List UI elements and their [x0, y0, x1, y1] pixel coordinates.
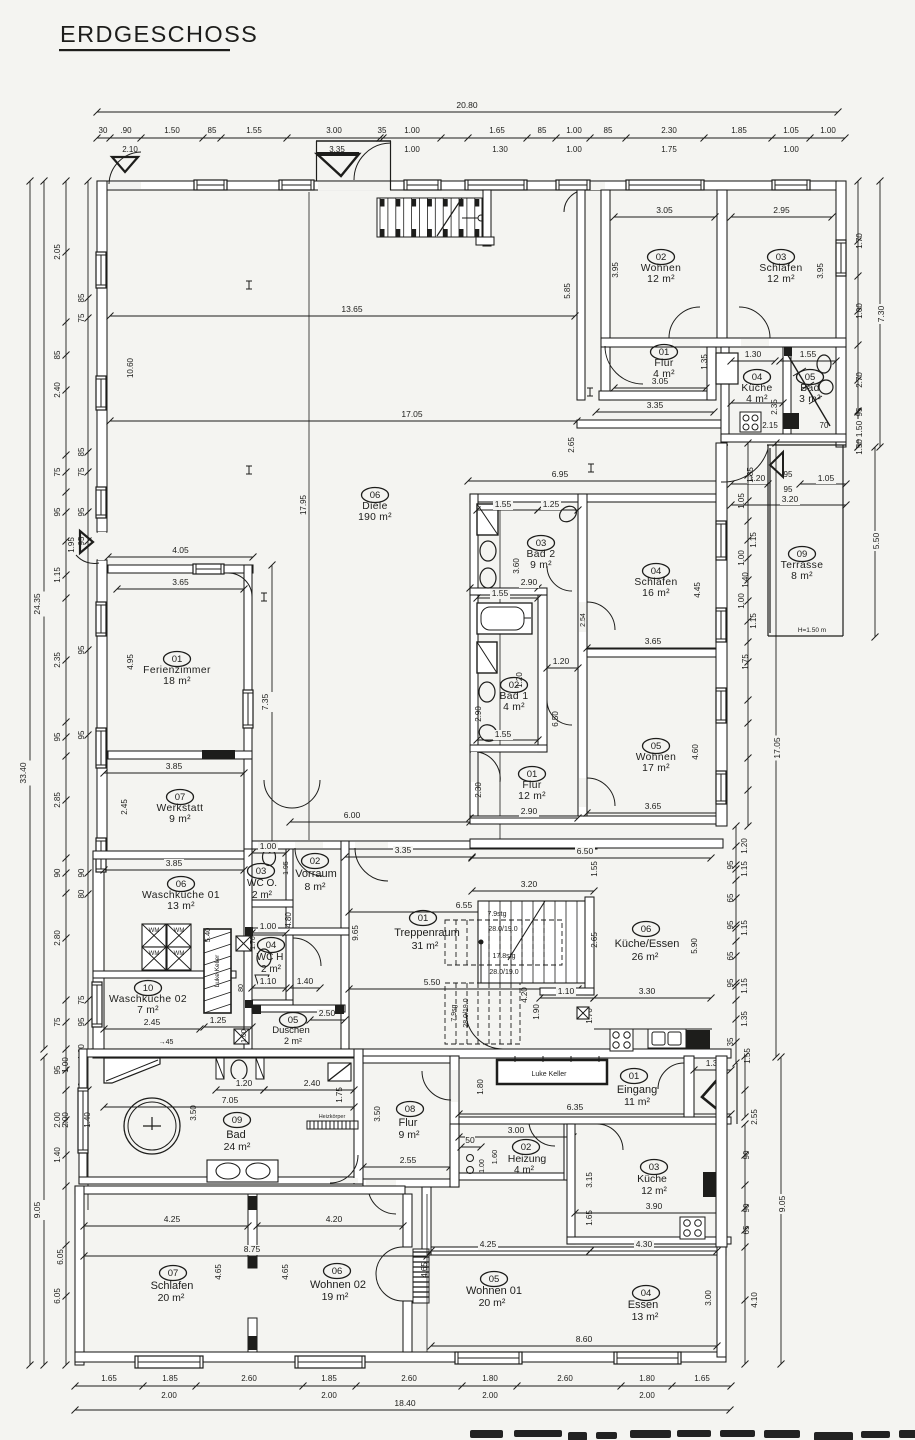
svg-text:Wohnen 02: Wohnen 02 — [310, 1279, 366, 1291]
svg-text:1.00: 1.00 — [737, 593, 746, 609]
dim 18.40 — [75, 1409, 730, 1411]
svg-text:75: 75 — [53, 1017, 62, 1026]
svg-text:3.95: 3.95 — [611, 262, 620, 278]
svg-text:18 m²: 18 m² — [163, 676, 191, 687]
top block left wall — [601, 190, 610, 400]
svg-text:2.55: 2.55 — [400, 1155, 417, 1165]
svg-text:65: 65 — [726, 951, 735, 960]
svg-text:9 m²: 9 m² — [530, 560, 552, 571]
svg-text:2.30: 2.30 — [474, 782, 483, 798]
svg-text:95: 95 — [53, 732, 62, 741]
dim 1.05 terrasse — [800, 483, 846, 485]
svg-text:80: 80 — [238, 984, 245, 992]
svg-text:3.35: 3.35 — [647, 400, 664, 410]
svg-text:1.80: 1.80 — [482, 1374, 498, 1383]
svg-text:95: 95 — [77, 730, 86, 739]
stair hall rail — [462, 217, 478, 219]
svg-text:2.54: 2.54 — [580, 613, 587, 627]
wall between Waschkueche — [93, 971, 236, 978]
Wohnen02 right wall upper — [403, 1194, 412, 1247]
svg-text:17.05: 17.05 — [772, 737, 782, 759]
svg-text:9 m²: 9 m² — [399, 1129, 421, 1141]
room 09 Bad24 — [224, 1113, 251, 1128]
dim 4.25 Wohnen01 — [431, 1250, 590, 1252]
porch top line — [316, 140, 391, 142]
svg-text:7.05: 7.05 — [222, 1095, 239, 1105]
room 01 Flur12 — [519, 767, 546, 782]
dim 3.35 below Flur — [596, 411, 714, 413]
dim 1.50 right — [857, 411, 859, 447]
dim 7.30 top block — [879, 181, 881, 447]
svg-text:75: 75 — [77, 467, 86, 476]
Bad2 sink 1 — [480, 541, 496, 561]
door arrow Terrasse — [770, 452, 783, 477]
door arc Bad1 — [547, 700, 572, 725]
svg-text:4.25: 4.25 — [164, 1214, 181, 1224]
svg-text:1.65: 1.65 — [694, 1374, 710, 1383]
washing machine 3 — [142, 947, 166, 970]
outer wall right lower — [716, 1056, 727, 1247]
room 05 Duschen — [280, 1013, 307, 1028]
svg-text:Eingang: Eingang — [617, 1084, 657, 1096]
dim 6.35 — [459, 1113, 731, 1115]
door gap Treppenraum — [355, 842, 388, 848]
svg-text:Waschküche 01: Waschküche 01 — [142, 890, 220, 901]
dim 3.85 Werkstatt — [104, 772, 244, 774]
svg-text:Bad: Bad — [226, 1129, 246, 1141]
central divider wall — [578, 494, 587, 816]
svg-text:5.40: 5.40 — [203, 928, 212, 943]
svg-text:2.60: 2.60 — [401, 1374, 417, 1383]
svg-text:24.35: 24.35 — [32, 593, 42, 615]
top block wall below rooms — [601, 338, 846, 347]
stair hall diagonal — [437, 198, 462, 236]
svg-text:9.05: 9.05 — [777, 1195, 787, 1212]
Bad24 post 1 — [216, 1058, 224, 1079]
dim 17.05 right — [775, 443, 777, 1057]
door gap left wall mid — [98, 532, 106, 560]
svg-text:6.95: 6.95 — [552, 469, 569, 479]
wall below stair — [476, 237, 494, 245]
door arc Heizung — [529, 1124, 555, 1146]
black post Bad05 — [784, 347, 792, 356]
svg-text:3.65: 3.65 — [172, 577, 189, 587]
Bad24 shower diag — [106, 1060, 158, 1081]
svg-text:Diele: Diele — [362, 501, 387, 512]
black post mid 1 — [245, 927, 253, 936]
svg-text:17.8stg: 17.8stg — [493, 953, 516, 960]
top dim chain — [97, 137, 845, 139]
svg-text:4.10: 4.10 — [750, 1292, 759, 1308]
Treppenraum lower wall — [540, 988, 594, 995]
bottom right wall — [717, 1247, 726, 1357]
wall right of stair — [483, 190, 491, 246]
svg-text:190 m²: 190 m² — [358, 512, 392, 523]
door gap Wohnen12 — [672, 339, 700, 346]
window right mid 4 — [716, 771, 726, 804]
svg-text:2.85: 2.85 — [53, 792, 62, 808]
svg-text:95: 95 — [784, 470, 793, 479]
outer wall top — [97, 181, 838, 190]
svg-text:4.65: 4.65 — [281, 1264, 290, 1280]
window right mid 2 — [716, 608, 726, 642]
counter black Kueche04 — [783, 413, 799, 429]
svg-text:1.20: 1.20 — [236, 1078, 253, 1088]
svg-text:3.60: 3.60 — [512, 558, 521, 574]
dim 1.20 corridor — [547, 667, 578, 669]
svg-text:2.90: 2.90 — [474, 706, 483, 722]
scan artifact strip bottom — [470, 1430, 915, 1440]
outer wall left lower block — [93, 852, 104, 1057]
bottom band top wall left — [75, 1186, 405, 1194]
svg-text:9.65: 9.65 — [351, 925, 360, 941]
svg-text:1.00: 1.00 — [479, 1159, 486, 1173]
dim 2.90 Bad2 — [470, 587, 538, 589]
svg-text:4 m²: 4 m² — [503, 702, 525, 713]
svg-text:1.00: 1.00 — [404, 145, 420, 154]
stair dashed flight upper — [445, 920, 562, 965]
svg-text:2.45: 2.45 — [120, 799, 129, 815]
svg-text:95: 95 — [77, 507, 86, 516]
door arc Treppenraum — [355, 848, 388, 881]
svg-text:6.35: 6.35 — [567, 1102, 584, 1112]
svg-text:2.15: 2.15 — [762, 421, 778, 430]
svg-text:1.05: 1.05 — [818, 473, 835, 483]
svg-text:6.55: 6.55 — [456, 900, 473, 910]
dim 1.00 WC O — [252, 852, 286, 854]
svg-text:9.05: 9.05 — [32, 1201, 42, 1218]
Bad24 top wall — [79, 1049, 363, 1057]
svg-text:1.05: 1.05 — [737, 493, 746, 509]
svg-text:4.65: 4.65 — [420, 1262, 429, 1278]
window left 4 — [96, 838, 106, 872]
porch door arc — [354, 143, 391, 180]
central block top wall — [470, 494, 723, 502]
mid band bottom wall — [93, 1049, 731, 1058]
section mark 2 — [246, 466, 252, 474]
svg-text:4.05: 4.05 — [172, 545, 189, 555]
Flur08 top wall — [363, 1056, 459, 1063]
svg-text:WC O.: WC O. — [247, 878, 277, 889]
svg-text:1.85: 1.85 — [731, 126, 747, 135]
svg-text:02: 02 — [521, 1142, 532, 1153]
svg-text:2 m²: 2 m² — [284, 1036, 302, 1046]
svg-text:Schlafen: Schlafen — [634, 577, 677, 588]
Bad24 bottom wall — [79, 1177, 363, 1184]
svg-text:1.00: 1.00 — [820, 126, 836, 135]
svg-text:2.05: 2.05 — [53, 244, 62, 260]
window bottom 1 — [135, 1356, 203, 1368]
room 01 Ferienzimmer — [164, 652, 191, 667]
svg-text:6.05: 6.05 — [56, 1249, 65, 1265]
dim 2.40 Bad24 — [264, 1089, 354, 1091]
svg-text:95: 95 — [77, 536, 86, 545]
cellar stair hatch3 — [809, 396, 822, 404]
svg-text:1.75: 1.75 — [741, 654, 750, 670]
Eingang right wall — [684, 1056, 694, 1117]
svg-text:3.00: 3.00 — [704, 1290, 713, 1306]
svg-text:Schlafen: Schlafen — [151, 1280, 194, 1292]
svg-text:03: 03 — [256, 866, 267, 877]
svg-text:1.00: 1.00 — [566, 145, 582, 154]
svg-text:1.95: 1.95 — [67, 537, 76, 553]
washing machine 2 — [167, 924, 191, 947]
door arc Terrasse — [721, 449, 768, 482]
dim 2.35 Kueche04 — [731, 402, 783, 404]
Heizung right wall — [564, 1124, 573, 1180]
svg-text:31 m²: 31 m² — [412, 940, 439, 952]
svg-text:3.35: 3.35 — [395, 845, 412, 855]
KE stove — [610, 1029, 633, 1051]
room 01 Flur 4 — [651, 345, 678, 360]
svg-text:1.40: 1.40 — [741, 572, 750, 588]
door arc Schlafen12 — [739, 307, 770, 338]
Duschen top wall — [252, 1005, 345, 1012]
svg-text:17 m²: 17 m² — [642, 763, 670, 774]
washing machine 1 — [142, 924, 166, 947]
svg-text:Flur: Flur — [522, 780, 542, 791]
svg-text:12 m²: 12 m² — [518, 791, 546, 802]
svg-text:1.00: 1.00 — [404, 126, 420, 135]
KE fridge black — [686, 1030, 710, 1049]
svg-text:03: 03 — [536, 538, 547, 549]
porch outer face line — [316, 180, 392, 182]
svg-text:33.40: 33.40 — [18, 762, 28, 784]
svg-text:06: 06 — [641, 924, 652, 935]
svg-text:3.95: 3.95 — [816, 263, 825, 279]
svg-text:05: 05 — [651, 741, 662, 752]
porch door thick edge — [317, 152, 359, 156]
dim 7.05 — [104, 1106, 354, 1108]
door gap Flur12 left — [471, 752, 477, 782]
svg-text:2.35: 2.35 — [770, 399, 779, 415]
svg-text:Ferienzimmer: Ferienzimmer — [143, 665, 211, 676]
svg-text:2.95: 2.95 — [773, 205, 790, 215]
dim 3.65 Schlafen16 — [587, 647, 723, 649]
svg-text:20 m²: 20 m² — [158, 1292, 185, 1304]
svg-text:3.15: 3.15 — [585, 1172, 594, 1188]
svg-text:WM: WM — [149, 951, 160, 957]
black post Duschen 2 — [335, 1005, 344, 1014]
svg-text:10: 10 — [143, 983, 154, 994]
svg-text:1.50: 1.50 — [855, 439, 864, 455]
window top 2 — [279, 180, 314, 190]
section mark 5 — [587, 388, 593, 396]
svg-text:20 m²: 20 m² — [479, 1297, 506, 1309]
svg-text:Heizung: Heizung — [508, 1153, 547, 1165]
door arc top corridor — [564, 190, 586, 212]
black post mid 2 — [245, 1000, 253, 1008]
cellar stair diagonal — [786, 352, 830, 426]
window left 5 — [92, 982, 102, 1027]
svg-text:7.30: 7.30 — [876, 305, 886, 322]
central block bottom wall — [470, 816, 723, 824]
window right of Schlafen 12 — [836, 240, 846, 276]
svg-text:04: 04 — [752, 372, 763, 383]
svg-text:1.65: 1.65 — [489, 126, 505, 135]
svg-text:28.0/19.0: 28.0/19.0 — [488, 926, 517, 933]
svg-text:1.20: 1.20 — [515, 672, 524, 688]
window left 3 — [96, 728, 106, 768]
svg-text:3.65: 3.65 — [645, 636, 662, 646]
svg-text:3.20: 3.20 — [782, 494, 799, 504]
dim 8.75 — [84, 1255, 427, 1257]
svg-text:8 m²: 8 m² — [791, 571, 813, 582]
svg-text:95: 95 — [855, 407, 864, 416]
svg-text:7 m²: 7 m² — [137, 1005, 159, 1016]
svg-text:Terrasse: Terrasse — [781, 560, 824, 571]
svg-text:WM: WM — [174, 928, 185, 934]
svg-text:80: 80 — [77, 889, 86, 898]
svg-text:85: 85 — [77, 293, 86, 302]
entrance arrow — [702, 1073, 723, 1114]
door arc Bad2 — [547, 566, 572, 591]
window bottom 2 — [295, 1356, 365, 1368]
wall below Flur01 band — [577, 420, 721, 428]
dim 8.60 — [431, 1345, 717, 1347]
door arc Flur12 — [478, 752, 500, 782]
svg-text:06: 06 — [332, 1266, 343, 1277]
WC H sink — [255, 975, 269, 984]
door arc Eingang — [658, 1063, 684, 1089]
door gap top corridor — [586, 182, 605, 190]
svg-text:1.00: 1.00 — [61, 1057, 70, 1073]
Heizung pipe 2 — [467, 1167, 474, 1174]
svg-text:12 m²: 12 m² — [641, 1186, 667, 1197]
outer wall right middle — [716, 443, 727, 826]
entrance porch right line — [736, 1063, 738, 1124]
Ferienzimmer right wall — [244, 565, 252, 758]
Heizung pipe 1 — [467, 1155, 474, 1162]
svg-text:03: 03 — [776, 252, 787, 263]
room 10 Waschkueche02 — [135, 981, 162, 996]
dim 6.50 KE — [472, 857, 711, 859]
Bad24 right wall — [354, 1049, 363, 1184]
door arc KE entry — [466, 1012, 503, 1049]
svg-text:8.75: 8.75 — [244, 1244, 261, 1254]
svg-text:35: 35 — [378, 126, 387, 135]
svg-text:11 m²: 11 m² — [624, 1096, 651, 1108]
porch door triangle — [317, 154, 359, 176]
Bad24 toilet — [231, 1060, 247, 1080]
room 03 Bad2 — [528, 536, 555, 551]
kitchen strip bottom wall — [721, 434, 846, 442]
Bad1 toilet — [479, 682, 495, 702]
svg-text:1.15: 1.15 — [749, 613, 758, 629]
WC H toilet — [257, 949, 271, 967]
svg-text:Flur: Flur — [399, 1117, 418, 1129]
dim 1.55 Bad2 — [477, 509, 538, 511]
svg-text:08: 08 — [405, 1104, 416, 1115]
Bad2 sink 2 — [480, 568, 496, 588]
Werkstatt right wall — [244, 759, 252, 851]
svg-text:Heizkörper: Heizkörper — [319, 1114, 346, 1120]
svg-text:1.25: 1.25 — [210, 1015, 227, 1025]
svg-text:WM: WM — [174, 951, 185, 957]
svg-text:12 m²: 12 m² — [767, 274, 795, 285]
porch left jamb — [316, 141, 318, 181]
svg-text:1.00: 1.00 — [783, 145, 799, 154]
dim 5.50 terrasse — [874, 447, 876, 637]
svg-text:4.65: 4.65 — [214, 1264, 223, 1280]
radiator Bad24 — [307, 1114, 358, 1129]
dim 4.20 Wohnen02 — [257, 1225, 403, 1227]
dim 6.55 — [349, 911, 578, 913]
svg-text:01: 01 — [527, 769, 538, 780]
svg-text:24 m²: 24 m² — [224, 1141, 251, 1153]
dim 7.35 — [271, 565, 273, 850]
svg-text:4.60: 4.60 — [691, 744, 700, 760]
svg-text:19 m²: 19 m² — [322, 1291, 349, 1303]
svg-text:06: 06 — [176, 879, 187, 890]
WC O bottom wall — [252, 900, 293, 907]
svg-text:05: 05 — [489, 1274, 500, 1285]
svg-text:3.05: 3.05 — [652, 376, 669, 386]
svg-text:1.75: 1.75 — [335, 1087, 344, 1103]
window Ferienzimmer right — [243, 690, 253, 728]
window left 0b — [96, 376, 106, 410]
svg-text:1.75: 1.75 — [661, 145, 677, 154]
dim 2.50 Duschen — [310, 1019, 345, 1021]
Vorraum bottom wall — [252, 928, 349, 935]
dim 1.00 WC H — [252, 932, 286, 934]
window right mid 1 — [716, 521, 726, 560]
svg-text:95: 95 — [53, 507, 62, 516]
central block left wall — [470, 494, 478, 824]
dim 1.25 Bad2 — [538, 509, 578, 511]
svg-text:1.55: 1.55 — [800, 349, 817, 359]
room 05 Wohnen01 — [481, 1272, 508, 1287]
right chain top block — [857, 181, 859, 447]
svg-text:13.65: 13.65 — [341, 304, 363, 314]
Kueche03 stove — [680, 1217, 705, 1239]
svg-text:95: 95 — [77, 1017, 86, 1026]
svg-text:1.40: 1.40 — [53, 1147, 62, 1163]
svg-text:2.50: 2.50 — [319, 1008, 336, 1018]
svg-text:75: 75 — [77, 995, 86, 1004]
door arc Kueche03 — [597, 1124, 623, 1150]
svg-text:18.40: 18.40 — [394, 1398, 416, 1408]
svg-text:1.10: 1.10 — [558, 986, 575, 996]
svg-text:1.15: 1.15 — [53, 567, 62, 583]
Kueche03 bottom wall — [567, 1237, 731, 1244]
dim 1.20 Bad24 — [216, 1089, 264, 1091]
svg-text:75: 75 — [77, 313, 86, 322]
Waschkueche right wall — [244, 849, 252, 1057]
hall vertical dim line — [308, 192, 310, 840]
svg-text:30: 30 — [99, 126, 108, 135]
svg-text:4.95: 4.95 — [126, 654, 135, 670]
window bottom 3 — [455, 1352, 522, 1364]
svg-text:65: 65 — [726, 893, 735, 902]
svg-text:90: 90 — [742, 1150, 751, 1159]
stair solid flight — [478, 901, 587, 983]
section mark 3 — [588, 464, 594, 472]
dim 9.05 right — [780, 1057, 782, 1364]
bottom dim chain — [75, 1385, 731, 1387]
svg-text:1.50: 1.50 — [854, 420, 864, 437]
svg-text:4.20: 4.20 — [520, 987, 529, 1003]
svg-text:1.10: 1.10 — [260, 976, 277, 986]
left dim 9.05 bottom — [43, 1057, 45, 1365]
svg-text:4.45: 4.45 — [693, 582, 702, 598]
Bad05 sink — [819, 380, 833, 394]
window Bad24 left — [78, 1088, 88, 1153]
dim 50 Heizung — [461, 1146, 481, 1148]
svg-text:4.20: 4.20 — [326, 1214, 343, 1224]
terrasse left chain — [747, 443, 749, 826]
svg-text:85: 85 — [538, 126, 547, 135]
